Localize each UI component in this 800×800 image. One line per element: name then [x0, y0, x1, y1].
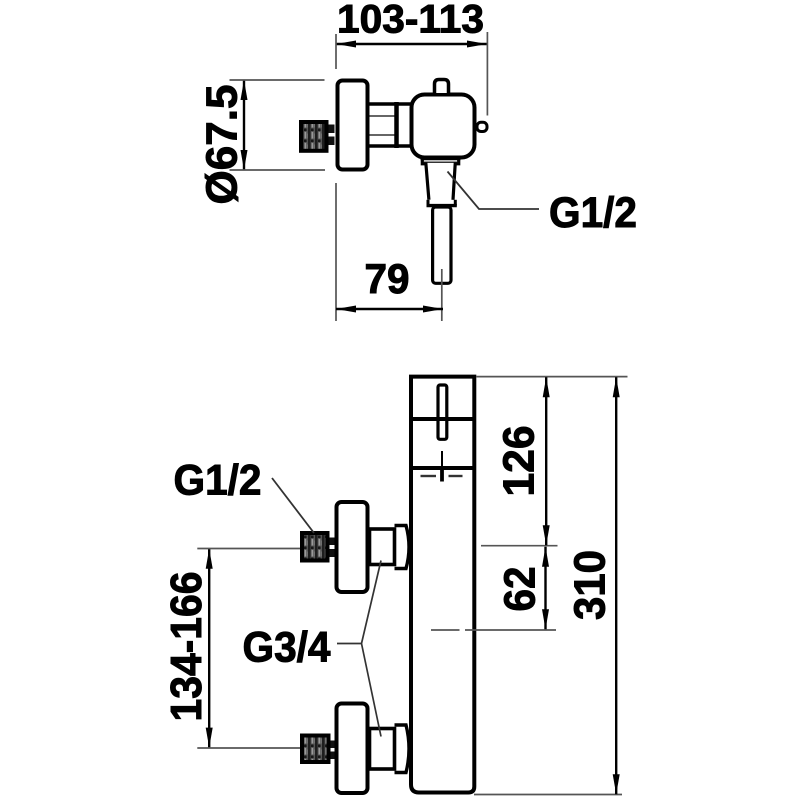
- dim 126 line: [545, 377, 547, 545]
- connector divider: [394, 102, 399, 148]
- extension line top of Ø67.5: [230, 79, 325, 81]
- wall flange (side view): [338, 81, 368, 170]
- wall flange top (front view side): [337, 502, 368, 592]
- connector thread line lower: [370, 134, 395, 136]
- connector rect top: [370, 529, 395, 565]
- collar top line: [421, 157, 461, 161]
- svg-text:Ø67.5: Ø67.5: [198, 85, 247, 205]
- bottom extension line: [474, 794, 622, 796]
- thread nubs top assembly: [330, 538, 336, 546]
- dim line 103-113: [336, 43, 487, 45]
- thread nubs bottom assembly: [331, 741, 336, 749]
- outlet pipe: [433, 207, 451, 283]
- svg-text:310: 310: [566, 550, 615, 620]
- connector body bottom edge: [368, 144, 414, 148]
- extension line bottom of Ø67.5: [230, 169, 326, 171]
- valve body (rounded square): [412, 95, 475, 158]
- dim line 79: [336, 308, 443, 310]
- extension line right of 103-113: [486, 32, 488, 116]
- dim line Ø67.5: [243, 80, 245, 170]
- pipe centerline (79 right extension): [441, 269, 443, 321]
- center mark dash left: [421, 475, 437, 477]
- dim 134-166 line: [208, 549, 210, 748]
- body divider line 2: [411, 466, 474, 470]
- taper bottom ring left: [427, 200, 430, 206]
- taper bottom ring right: [454, 200, 457, 206]
- connector body top edge: [368, 102, 414, 106]
- dim 310 line: [615, 377, 617, 794]
- leader G3/4 horizontal: [337, 643, 362, 645]
- top extension line: [476, 376, 627, 378]
- outlet taper right edge: [453, 159, 459, 200]
- extension line left of 103-113: [335, 34, 337, 69]
- svg-text:G3/4: G3/4: [243, 624, 331, 672]
- svg-text:G1/2: G1/2: [174, 457, 262, 505]
- dim 62 line: [544, 547, 546, 630]
- top inlet assembly: hatched square G1/2: [302, 533, 328, 561]
- center mark vertical: [440, 470, 444, 482]
- 62 bottom extension (centerline): [431, 629, 460, 631]
- flange centerline (lower part, 79 extension): [335, 183, 337, 321]
- temperature slot: [438, 385, 447, 439]
- extension line 134-166 top: [197, 548, 300, 550]
- leader G3/4 down: [362, 644, 382, 737]
- svg-text:G1/2: G1/2: [549, 189, 637, 237]
- svg-text:79: 79: [365, 255, 410, 302]
- leader G1/2 top: [448, 172, 540, 210]
- svg-text:62: 62: [496, 567, 545, 612]
- center mark dash right: [449, 475, 463, 477]
- body divider line 1: [411, 417, 474, 421]
- collar thin line: [424, 161, 457, 163]
- bottom inlet assembly: hatched square: [302, 736, 329, 763]
- connector arc piece bottom: [395, 725, 410, 773]
- svg-text:126: 126: [495, 426, 544, 497]
- mid extension line (126/62): [481, 545, 558, 547]
- extension line 134-166 bottom: [197, 747, 300, 749]
- threaded inlet G1/2 (hatched square, side view): [301, 122, 327, 151]
- wall flange bottom: [337, 704, 368, 794]
- leader G3/4 up: [362, 561, 382, 644]
- thread nubs: [329, 125, 335, 134]
- main body: [411, 377, 474, 793]
- knob on top: [435, 80, 449, 94]
- connector arc piece top: [395, 526, 410, 569]
- leader G1/2 bottom: [272, 478, 314, 533]
- connector thread line upper: [370, 115, 395, 117]
- right tab: [477, 122, 487, 131]
- tick below slot: [441, 451, 443, 467]
- taper bottom line: [427, 204, 457, 207]
- svg-text:103-113: 103-113: [337, 0, 484, 42]
- svg-text:134-166: 134-166: [162, 572, 211, 722]
- outlet taper left edge: [422, 159, 429, 200]
- connector rect bottom: [370, 729, 395, 770]
